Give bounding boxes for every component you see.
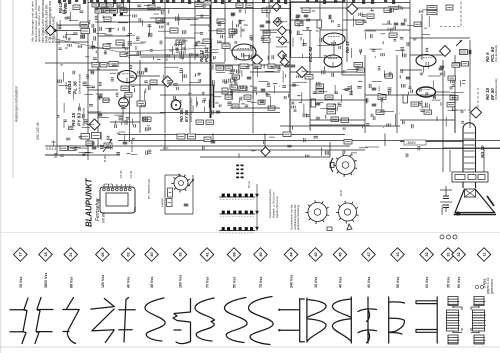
svg-text:45 Vss: 45 Vss: [150, 277, 154, 288]
svg-text:47: 47: [367, 252, 371, 256]
wire: [210, 0, 212, 118]
wire: [290, 19, 320, 21]
resistor R166: [453, 63, 460, 68]
CRT funnel: [455, 190, 495, 213]
svg-text:11: 11: [482, 252, 486, 256]
wire: [165, 213, 193, 215]
wire: [165, 174, 181, 176]
wire: [129, 0, 131, 142]
pulse row baseline 1: [220, 199, 254, 201]
test point 32 legend: [420, 248, 434, 262]
resistor R275: [137, 101, 146, 106]
pulse dashes column: [236, 165, 243, 179]
wire: [342, 74, 365, 76]
capacitor C150: [266, 21, 271, 23]
capacitor C151: [296, 15, 301, 17]
wire: [164, 0, 166, 133]
wire: [213, 85, 215, 108]
test point 40 legend: [254, 248, 268, 262]
wire: [250, 71, 280, 73]
wire: [343, 19, 365, 21]
resistor R171: [316, 84, 324, 88]
IF module inner box: [106, 193, 128, 206]
wire: [88, 69, 118, 71]
test point c: [278, 26, 287, 35]
resistor R191: [448, 76, 456, 80]
wire: [88, 47, 130, 49]
wire: [118, 140, 500, 142]
test point 42 legend: [309, 248, 323, 262]
test point f: [280, 58, 289, 67]
wire: [136, 75, 160, 77]
tube Rö12 PCL82 triode: [232, 44, 256, 60]
wire: [260, 29, 290, 31]
wire: [442, 60, 444, 148]
wire: [445, 208, 447, 212]
resistor R285: [230, 85, 238, 89]
ground CRT: [456, 211, 461, 215]
svg-text:PL 36: PL 36: [129, 170, 133, 178]
capacitor C CRT: [443, 196, 449, 208]
resistor R150: [262, 8, 270, 13]
wire: [139, 60, 141, 133]
test point 18 legend: [39, 248, 53, 262]
wire: [365, 29, 410, 31]
resistor R310: [177, 134, 185, 139]
capacitor C253: [260, 25, 265, 27]
wire: [45, 62, 160, 64]
test point 28: [440, 46, 451, 57]
waveform 12 oscillogram: [332, 297, 351, 343]
waveform 4 oscillogram: [119, 298, 135, 343]
wire: [190, 24, 210, 26]
wire: [95, 8, 290, 10]
capacitor C241: [94, 28, 96, 33]
waveform 15 oscillogram: [416, 297, 437, 343]
svg-text:ECC 82: ECC 82: [308, 46, 313, 62]
wire: [160, 112, 280, 114]
svg-text:02: 02: [126, 252, 130, 256]
resistor R156: [356, 20, 363, 25]
capacitor C162: [440, 66, 445, 68]
resistor R288: [244, 95, 251, 99]
svg-text:90 Vss: 90 Vss: [457, 277, 461, 288]
capacitor C153: [329, 15, 331, 20]
svg-text:120 Vss: 120 Vss: [101, 275, 105, 288]
resistor R244: [104, 17, 111, 22]
wire: [309, 30, 311, 58]
wire to CRT dome: [469, 120, 471, 128]
wire: [410, 54, 443, 56]
wire: [55, 41, 88, 43]
wire: [320, 29, 347, 31]
resistor R254: [92, 133, 101, 139]
socket bracket pin: [330, 163, 334, 168]
wire: [346, 0, 348, 62]
svg-text:-300V-: -300V-: [406, 141, 417, 145]
resistor R162: [427, 11, 437, 15]
resistor R290: [196, 120, 204, 124]
resistor R235: [111, 9, 118, 13]
waveform 14 oscillogram: [389, 297, 405, 343]
tube Rö17 ECC82 triode a: [323, 33, 345, 45]
wire: [88, 112, 165, 114]
wire stub circle: [54, 29, 56, 31]
capacitor C152: [304, 15, 309, 17]
svg-text:2/IV 157-06: 2/IV 157-06: [36, 122, 40, 140]
resistor R181: [341, 118, 349, 122]
wire: [160, 94, 213, 96]
wire: [45, 154, 120, 156]
resistor R172: [316, 89, 324, 93]
diagonal wire: [120, 48, 210, 52]
svg-text:60 Vss: 60 Vss: [425, 277, 429, 288]
resistor R256: [217, 29, 225, 34]
resistor R271: [100, 63, 107, 68]
capacitor C282: [216, 111, 221, 113]
resistor R232: [107, 3, 114, 7]
resistor R311: [188, 134, 196, 139]
wire: [150, 17, 210, 19]
capacitor C243: [91, 46, 96, 48]
test point d: [278, 36, 287, 45]
wire: [289, 0, 291, 133]
svg-text:15 Vss: 15 Vss: [314, 277, 318, 288]
resistor R246: [103, 44, 110, 49]
wire CRT grid: [445, 186, 447, 196]
svg-text:G.9-: G.9-: [163, 146, 169, 150]
waveform 10 oscillogram: [279, 299, 304, 342]
svg-text:(Ton-Endstufe): (Ton-Endstufe): [494, 45, 498, 62]
wire: [469, 40, 471, 120]
resistor R236: [117, 3, 124, 7]
wire: [118, 134, 345, 136]
svg-text:Änderungen vorbehalten!: Änderungen vorbehalten!: [15, 86, 19, 122]
capacitor C263: [92, 147, 97, 149]
resistor R245: [116, 40, 124, 45]
svg-text:signals (Schema): signals (Schema): [275, 196, 279, 218]
wire: [160, 62, 225, 64]
wire: [95, 21, 165, 23]
svg-text:Rö 17: Rö 17: [345, 40, 350, 53]
wire: [224, 0, 226, 62]
capacitor C191: [406, 77, 411, 79]
IF module pin wires: [104, 184, 130, 188]
capacitor C300: [184, 204, 189, 206]
resistor R283: [253, 64, 261, 69]
wire: [122, 107, 124, 122]
test point 17 legend: [14, 248, 28, 262]
wire: [410, 37, 470, 39]
svg-text:40 Vss: 40 Vss: [367, 277, 371, 288]
svg-text:50 Hz: 50 Hz: [247, 181, 251, 188]
tube Rö15 PY83 diode: [119, 98, 129, 108]
capacitor C240: [73, 5, 80, 10]
resistor R251: [156, 18, 164, 23]
resistor R175: [327, 110, 336, 114]
waveform 6 oscillogram: [173, 299, 191, 344]
svg-text:55 Vss: 55 Vss: [396, 277, 400, 288]
resistor R292: [232, 104, 239, 108]
test point 26: [297, 67, 308, 78]
resistor R154: [302, 8, 310, 13]
svg-text:75 Vss: 75 Vss: [259, 277, 263, 288]
capacitor C265: [98, 96, 103, 98]
test point a: [272, 3, 281, 12]
svg-text:40 Vss: 40 Vss: [339, 277, 343, 288]
wire: [396, 55, 398, 133]
transformer winding: [109, 62, 118, 67]
resistor R165: [446, 5, 453, 10]
test point b: [273, 18, 282, 27]
svg-text:gemessen: gemessen: [490, 279, 494, 294]
socket view pin stub: [347, 224, 352, 230]
svg-text:41: 41: [205, 252, 209, 256]
test point 40 legend: [145, 248, 159, 262]
wire: [87, 0, 89, 155]
svg-text:gemessen. Toleranz +-15%: gemessen. Toleranz +-15%: [37, 5, 41, 42]
CRT Rö10 neck: [463, 128, 476, 188]
wire: [164, 175, 166, 214]
svg-text:(Hochspannungsgl.): (Hochspannungsgl.): [189, 97, 193, 122]
test point 31 legend: [441, 248, 455, 262]
wire: [230, 107, 280, 109]
wire: [384, 134, 386, 147]
wire: [215, 91, 290, 93]
wire CRT socket: [442, 148, 444, 172]
wire: [365, 94, 455, 96]
capacitor C171: [291, 65, 296, 67]
wire: [87, 155, 89, 160]
dashed enclosure audio: [440, 0, 461, 27]
capacitor C170: [285, 65, 290, 67]
svg-text:40: 40: [150, 252, 154, 256]
resistor R196: [403, 95, 408, 103]
svg-text:08: 08: [232, 252, 236, 256]
wire CRT socket: [483, 148, 485, 172]
svg-text:gedruckten Schaltung: gedruckten Schaltung: [296, 204, 300, 230]
circled number a: [440, 235, 444, 239]
test point 33 legend: [391, 248, 405, 262]
test point 11 legend: [477, 248, 491, 262]
IF module pins: [103, 188, 131, 191]
svg-text:17: 17: [19, 252, 23, 256]
transistor T300: [188, 179, 194, 186]
test point 45 legend: [333, 248, 347, 262]
wire: [454, 95, 456, 133]
resistor R312: [204, 137, 211, 142]
diagonal wire: [50, 38, 120, 52]
tube socket Bildkompass: [172, 174, 191, 193]
svg-text:Rö 15: Rö 15: [71, 113, 77, 126]
label -300V-: [404, 140, 426, 145]
svg-text:18: 18: [44, 252, 48, 256]
test point 25b: [261, 147, 270, 156]
svg-text:Rö 14: Rö 14: [67, 81, 73, 94]
resistor R220: [204, 1, 211, 5]
resistor R231: [100, 3, 107, 7]
resistor R194: [411, 102, 419, 106]
resistor R257: [229, 29, 237, 34]
wire: [333, 45, 335, 55]
tube Rö6 PCL84 triode: [416, 55, 436, 67]
wire: [310, 119, 365, 121]
resistor R259: [176, 40, 183, 45]
wire: [192, 175, 194, 214]
wire: [268, 0, 270, 65]
wire: [329, 142, 331, 157]
tube Rö14 PL36 pentode: [118, 71, 137, 83]
wire: [280, 125, 400, 127]
resistor R183: [385, 74, 393, 78]
resistor R260: [203, 39, 210, 44]
svg-text:70 Vss: 70 Vss: [206, 277, 210, 288]
circled number b: [447, 235, 451, 239]
wire CRT socket: [449, 150, 451, 172]
test point 24: [46, 26, 56, 36]
resistor R240 NTC: [80, 22, 89, 27]
transistor arrow: [456, 40, 462, 46]
test point 41 legend: [200, 248, 214, 262]
test point 47 legend: [362, 248, 376, 262]
resistor R253: [81, 134, 90, 140]
wire: [165, 37, 195, 39]
wire: [341, 62, 343, 75]
resistor R153: [295, 21, 303, 26]
capacitor C281: [261, 89, 266, 91]
wire: [45, 154, 88, 156]
resistor R274: [125, 93, 132, 98]
waveform 11 oscillogram: [307, 298, 326, 342]
CRT Rö10 top dome: [463, 123, 476, 128]
resistor R190: [452, 63, 460, 67]
wire: [400, 119, 455, 121]
test point 27: [347, 4, 358, 15]
test point 21 legend: [64, 248, 78, 262]
waveform 17 oscillogram pulse stack: [471, 297, 486, 345]
test point 44 legend: [284, 248, 298, 262]
svg-text:32: 32: [425, 252, 429, 256]
svg-text:PY 83: PY 83: [119, 170, 123, 178]
waveform 10 junction dot a: [278, 309, 280, 311]
svg-text:(Zeilenendstufe): (Zeilenendstufe): [78, 74, 82, 94]
svg-text:21: 21: [69, 252, 73, 256]
resistor R242: [101, 8, 108, 13]
resistor R167: [462, 62, 469, 67]
test point 22: [89, 119, 100, 130]
svg-text:a b c d: a b c d: [104, 182, 112, 186]
resistor R233: [95, 9, 102, 13]
wire: [45, 145, 350, 147]
svg-text:26: 26: [178, 252, 182, 256]
capacitor C174: [372, 104, 377, 106]
wire pin1: [440, 189, 452, 191]
resistor R273: [121, 86, 129, 91]
resistor R152: [263, 38, 270, 43]
svg-text:Helligkeit: Helligkeit: [440, 204, 444, 215]
resistor R255: [217, 19, 225, 24]
tube socket view 1: [334, 153, 358, 177]
waveform 13 oscillogram: [358, 297, 377, 343]
wire: [194, 0, 196, 60]
wire: [454, 55, 456, 133]
waveform 3 oscillogram: [91, 299, 115, 343]
capacitor C173: [372, 88, 377, 90]
resistor R261: [236, 3, 243, 8]
capacitor C264: [123, 142, 128, 144]
capacitor C310: [211, 141, 216, 143]
resistor R177: [357, 68, 365, 72]
resistor R287: [225, 95, 232, 99]
wire: [436, 91, 450, 93]
resistor R161: [427, 6, 437, 10]
resistor R249: [104, 143, 112, 147]
test point 23: [162, 76, 173, 87]
top edge cropped labels: [58, 0, 395, 4]
pulse row baseline 3: [220, 232, 254, 234]
svg-text:0,9-1,1: 0,9-1,1: [46, 147, 57, 151]
test point 25: [252, 55, 263, 66]
test point e: [278, 51, 287, 60]
capacitor C160: [394, 23, 399, 25]
wire: [164, 134, 166, 151]
wire: [120, 9, 165, 11]
wire: [264, 134, 266, 158]
resistor R276: [150, 80, 157, 85]
resistor R243: [120, 8, 127, 13]
wire: [55, 30, 88, 32]
resistor R262: [246, 3, 253, 8]
wire: [252, 0, 254, 133]
resistor R252: [195, 2, 202, 7]
resistor R282: [240, 64, 248, 69]
potentiometer arrow: [103, 139, 112, 152]
test point 26 legend: [173, 248, 187, 262]
resistor R151: [263, 31, 270, 36]
svg-text:42: 42: [314, 252, 318, 256]
test point 32 legend: [452, 248, 466, 262]
resistor R173: [325, 95, 333, 99]
wire: [290, 71, 365, 73]
svg-text:88 Vss: 88 Vss: [69, 277, 73, 288]
wire: [140, 56, 210, 58]
wire: [56, 142, 58, 155]
resistor R160: [384, 8, 391, 13]
resistor R157: [367, 14, 374, 19]
svg-text:45: 45: [338, 252, 342, 256]
resistor R170: [305, 75, 313, 80]
wire: [400, 148, 500, 150]
svg-text:BLAUPUNKT: BLAUPUNKT: [85, 177, 94, 227]
wire: [230, 49, 253, 51]
circled number c: [453, 235, 457, 239]
test point 29: [471, 107, 482, 118]
svg-text:Lautspr.: Lautspr.: [160, 197, 164, 207]
resistor R2: [69, 146, 77, 150]
svg-text:06: 06: [101, 252, 105, 256]
extra connection wires texture: [53, 6, 465, 156]
dashed wire EF80: [455, 88, 478, 110]
wire: [409, 0, 411, 88]
small marks: [327, 227, 332, 231]
capacitor C163: [469, 50, 471, 55]
resistor R176: [354, 63, 363, 67]
pulse row baseline 2: [220, 216, 254, 218]
tube Rö17 ECC82 triode b: [324, 55, 342, 67]
wire pin2: [440, 201, 452, 203]
wire: [56, 22, 58, 142]
resistor R313: [283, 132, 291, 137]
